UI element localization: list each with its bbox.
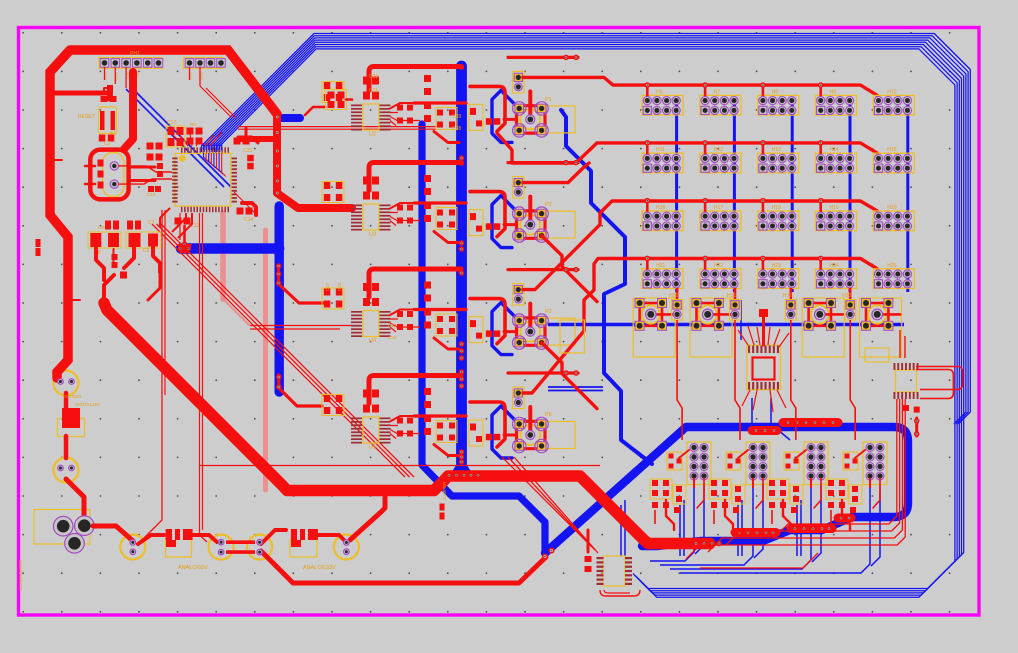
svg-text:P3: P3: [545, 309, 552, 315]
blue thick loop bottom-right: [545, 427, 908, 553]
red diag from H1 to fan: [200, 86, 236, 118]
svg-text:P2: P2: [545, 202, 552, 208]
red stubs off blue bar x279: [279, 265, 325, 406]
jumper vias on trunk: [447, 473, 721, 545]
blue hooks at P connectors: [492, 90, 518, 458]
svg-text:C21: C21: [369, 88, 378, 94]
mid block labels: [369, 132, 376, 451]
red bar x277 with elbow: [240, 114, 352, 208]
right IC U9: [894, 330, 963, 413]
svg-text:DIGITAL15V: DIGITAL15V: [75, 402, 100, 407]
svg-text:U3: U3: [369, 232, 376, 238]
big red trunk: [104, 303, 710, 544]
svg-text:JUMPER: JUMPER: [442, 481, 447, 500]
svg-text:P6: P6: [545, 412, 552, 418]
svg-text:PH1: PH1: [130, 51, 140, 57]
svg-text:C2: C2: [104, 141, 111, 147]
analog inductor blocks: [166, 528, 318, 547]
blue bar x422 with V route: [422, 124, 545, 551]
svg-text:H30: H30: [669, 293, 678, 299]
red elbow MCU bottom right: [242, 203, 256, 215]
vias on bar x279: [277, 264, 281, 389]
yellow outlines left side: [34, 58, 359, 560]
thin red pair y127: [238, 127, 436, 130]
MCU U1: [172, 147, 237, 212]
svg-text:C10: C10: [147, 192, 156, 197]
RESET label and K1: [78, 88, 117, 147]
svg-text:H32: H32: [783, 293, 792, 299]
red stubs under headers: [105, 67, 201, 88]
svg-text:R8: R8: [190, 122, 196, 127]
misc red top-left: [50, 85, 113, 300]
svg-text:P1: P1: [545, 97, 552, 103]
svg-text:H33: H33: [842, 293, 851, 299]
svg-text:C7: C7: [148, 220, 155, 226]
svg-text:K1: K1: [110, 131, 116, 137]
jumper pads x442: [440, 504, 445, 520]
svg-text:H17: H17: [714, 205, 723, 211]
vias on blue V cap: [543, 548, 554, 559]
blue stubs near T1: [741, 300, 790, 440]
svg-text:H7: H7: [714, 89, 721, 95]
red splash at arm cap: [177, 226, 192, 253]
red ring inner branch y93: [55, 91, 110, 96]
vias on sausages: [737, 421, 851, 535]
blue diagonal pair through U1: [126, 89, 231, 187]
svg-text:H19: H19: [830, 205, 839, 211]
svg-text:C39: C39: [452, 114, 461, 120]
svg-text:C22: C22: [369, 74, 378, 80]
cluster SMD parts: [650, 479, 862, 513]
left chain red: [62, 393, 84, 518]
pink inner traces: [223, 213, 266, 490]
fan inside U1: [204, 153, 226, 176]
IC U10 bottom: [585, 530, 641, 596]
svg-text:H6: H6: [656, 89, 663, 95]
svg-text:C14: C14: [244, 217, 253, 223]
svg-text:H21: H21: [656, 263, 665, 269]
crystal Y1: [85, 72, 155, 199]
thick red ring top-left: [50, 50, 277, 378]
crystal to MCU traces: [118, 166, 172, 184]
svg-text:C27: C27: [325, 282, 330, 291]
red staircase bus: [686, 399, 905, 568]
svg-text:C9: C9: [98, 225, 104, 230]
svg-text:C38: C38: [452, 126, 461, 132]
blue cluster drains: [621, 483, 880, 573]
pin header PH1: [100, 51, 163, 81]
svg-text:C52: C52: [388, 335, 397, 340]
cluster red links: [655, 478, 880, 530]
svg-text:H25: H25: [887, 263, 896, 269]
svg-text:U4: U4: [369, 338, 376, 344]
svg-text:H14: H14: [830, 147, 839, 153]
via pairs left chain: [58, 379, 75, 471]
left edge pads: [36, 239, 41, 256]
thin red verticals: [139, 210, 207, 543]
svg-text:OUT033: OUT033: [64, 394, 82, 399]
svg-text:C28: C28: [337, 282, 342, 291]
svg-text:H31: H31: [727, 293, 736, 299]
mid blocks group: [322, 55, 877, 455]
blue snake right side: [561, 110, 652, 464]
relay row RL1-RL4: [633, 288, 901, 440]
blue header columns: [677, 101, 908, 292]
svg-text:C6: C6: [143, 248, 150, 254]
svg-text:C53: C53: [388, 323, 397, 328]
svg-text:H23: H23: [772, 263, 781, 269]
vias on red bar: [275, 115, 279, 195]
svg-text:VCC: VCC: [188, 72, 193, 81]
red links U1 bottom to caps cluster: [160, 208, 192, 238]
svg-text:RESET: RESET: [78, 114, 95, 120]
svg-text:U5: U5: [369, 445, 376, 451]
thin red diagonals to SE: [152, 224, 598, 553]
svg-text:C15: C15: [243, 148, 252, 154]
pin header H1: [185, 59, 225, 81]
svg-text:U2: U2: [369, 132, 376, 138]
svg-text:H24: H24: [830, 263, 839, 269]
satellite caps around U1: [147, 120, 259, 229]
bottom-right headers: [687, 442, 887, 485]
power connector J1: [53, 516, 94, 553]
svg-text:C17: C17: [167, 120, 176, 126]
cluster SOT ICs: [667, 450, 865, 470]
R5/O1 pads block1: [305, 90, 352, 116]
svg-text:H13: H13: [772, 147, 781, 153]
blue fan into U1: [204, 143, 222, 150]
empty courtyard box: [560, 320, 584, 353]
small courtyard above U9: [865, 348, 889, 362]
bottom chain red traces: [93, 493, 546, 583]
svg-text:ANALOG33V: ANALOG33V: [303, 565, 336, 571]
svg-text:SDA: SDA: [103, 72, 108, 81]
blue bus top-right: [202, 34, 971, 598]
svg-text:H16: H16: [656, 205, 665, 211]
blue power bar x461: [452, 66, 471, 472]
svg-text:H20: H20: [887, 205, 896, 211]
transformer T1: [738, 309, 789, 412]
svg-text:H18: H18: [772, 205, 781, 211]
blue trace y325 relay row: [548, 323, 904, 326]
red jumper sausages: [735, 423, 851, 533]
blue pair to P4: [548, 387, 603, 391]
svg-text:H10: H10: [887, 89, 896, 95]
header grid: [642, 83, 914, 288]
C6-C9 cluster: [88, 220, 161, 280]
vias on main bar: [460, 65, 464, 464]
svg-text:CON/JUMPER: CON/JUMPER: [18, 559, 23, 590]
red stub in blue loop: [915, 418, 919, 436]
blue arm y248 and bar x279: [181, 118, 300, 392]
svg-text:H15: H15: [887, 147, 896, 153]
red diag pair inside U1 low: [234, 192, 256, 214]
chain via pairs: [130, 539, 349, 554]
svg-text:ANALOG5V: ANALOG5V: [178, 565, 208, 571]
svg-text:H9: H9: [830, 89, 837, 95]
svg-text:H22: H22: [714, 263, 723, 269]
red fan from U1: [172, 132, 222, 146]
svg-text:H12: H12: [714, 147, 723, 153]
svg-text:H11: H11: [656, 147, 665, 153]
svg-text:H8: H8: [772, 89, 779, 95]
thin red horizontals: [200, 326, 600, 466]
trunk feeders topside: [104, 270, 160, 303]
